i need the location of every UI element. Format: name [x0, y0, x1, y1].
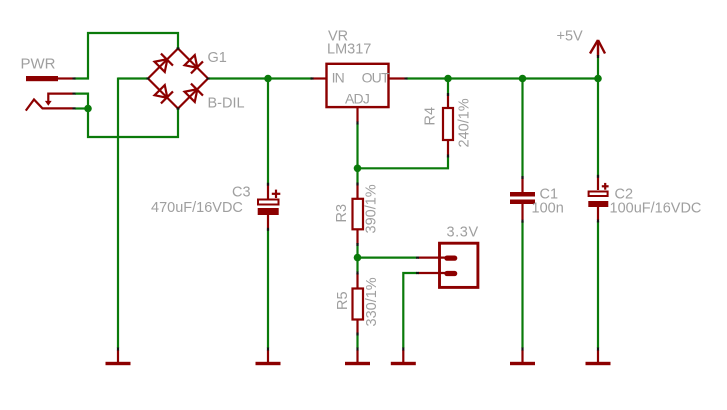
junction dot at 3.3V tap — [354, 254, 362, 262]
ground (C3) — [256, 350, 281, 365]
wire: C3 tap down — [267, 79, 269, 185]
diode D4 (bottom->right) — [184, 83, 204, 103]
pin 2 tongue — [444, 271, 457, 276]
C2 plus sign — [602, 183, 609, 190]
wire: C2 bottom to ground — [597, 221, 599, 348]
svg-text:LM317: LM317 — [327, 42, 371, 58]
junction dot at ADJ — [354, 165, 362, 173]
diode D2 (top->right) — [184, 54, 204, 74]
resistor R3 body — [353, 184, 364, 245]
wire: tap down to R5 — [356, 258, 358, 272]
wire: +5V riser — [597, 56, 599, 79]
junction dot at R4 — [444, 75, 452, 83]
wire: bridge right corner to LM317 IN — [209, 77, 312, 79]
bridge rectifier G1 diamond — [148, 49, 208, 109]
capacitor C3 (polarized) — [258, 184, 281, 229]
wire: junction down and right to bridge bottom — [88, 109, 178, 138]
wire: junction down to R3 — [356, 168, 358, 183]
junction dot at C3 tap — [264, 75, 272, 83]
wire: ADJ junction right and up to R4 bottom — [358, 156, 449, 169]
svg-text:C3: C3 — [232, 185, 251, 201]
svg-text:390/1%: 390/1% — [364, 184, 380, 233]
wire: R4 top stub — [447, 79, 449, 95]
ground (R5) — [345, 350, 370, 365]
op-amp / regulator VR LM317 box — [313, 64, 405, 122]
svg-text:330/1%: 330/1% — [364, 277, 380, 326]
ground (C1) — [510, 350, 535, 365]
svg-text:R5: R5 — [335, 291, 351, 310]
pin IN stub — [313, 77, 328, 79]
wire: left rail down to ground — [117, 78, 119, 349]
resistor R5 body — [353, 273, 364, 334]
svg-text:ADJ: ADJ — [345, 91, 369, 107]
supply +5V arrow — [590, 40, 605, 56]
wire: R5 bottom to ground — [356, 334, 358, 349]
wire: PWR pin1 to bridge top (net segment) — [75, 33, 179, 79]
svg-text:470uF/16VDC: 470uF/16VDC — [151, 200, 243, 216]
svg-text:B-DIL: B-DIL — [208, 96, 245, 112]
C3 plus sign — [272, 190, 281, 198]
wire: jack switch contact to junction — [75, 94, 88, 109]
wire: C1 bottom to ground — [521, 221, 523, 348]
svg-text:IN: IN — [332, 70, 344, 86]
wire: R3 bottom to 3.3V junction — [356, 244, 358, 258]
junction dot at C1 — [519, 75, 527, 83]
wire: bridge left corner to left rail — [118, 77, 147, 79]
ground (3.3V pin2) — [391, 350, 416, 365]
svg-text:G1: G1 — [208, 50, 227, 66]
svg-text:3.3V: 3.3V — [447, 225, 479, 241]
wire: C2 top — [597, 79, 599, 177]
connector SV1 3.3V — [418, 243, 478, 287]
wire: 3.3V pin2 to ground — [403, 273, 417, 348]
svg-text:+5V: +5V — [557, 29, 584, 45]
wire: C1 top — [521, 79, 523, 178]
svg-text:100uF/16VDC: 100uF/16VDC — [610, 201, 702, 217]
connector PWR jack symbol — [26, 94, 73, 111]
diode D3 (left->bottom) — [154, 84, 174, 104]
svg-text:PWR: PWR — [21, 56, 56, 73]
svg-text:R4: R4 — [423, 107, 439, 126]
ground (C2) — [586, 350, 611, 365]
svg-text:100n: 100n — [532, 201, 564, 217]
wire: jack sleeve to junction — [75, 107, 88, 109]
svg-text:OUT: OUT — [362, 70, 390, 86]
jack tip arrow — [45, 101, 52, 106]
junction dot at +5V/C2 — [594, 75, 602, 83]
pin 1 tongue — [444, 256, 457, 261]
pin ADJ stub — [356, 107, 358, 122]
bridge corner pin dots — [177, 47, 180, 49]
pin 1 line — [418, 257, 446, 259]
svg-text:240/1%: 240/1% — [457, 98, 473, 147]
diode D1 (left->top) — [154, 53, 174, 73]
capacitor C2 (polarized) — [588, 176, 608, 220]
pin-end tick marks (black) — [73, 49, 599, 351]
wire: ADJ down to junction — [356, 124, 358, 169]
pin 2 line — [418, 272, 446, 274]
svg-text:R3: R3 — [334, 204, 350, 223]
wire: C3 bottom to ground — [267, 229, 269, 348]
connector PWR pin1 pad — [26, 76, 73, 81]
junction dot at PWR — [84, 105, 92, 113]
capacitor C1 — [510, 177, 535, 220]
pin OUT stub — [388, 77, 405, 79]
wire: tap right to 3.3V pin1 — [358, 257, 418, 259]
wire: LM317 OUT rail — [407, 77, 599, 79]
ground (left rail) — [106, 350, 131, 365]
resistor R4 body — [443, 94, 453, 155]
